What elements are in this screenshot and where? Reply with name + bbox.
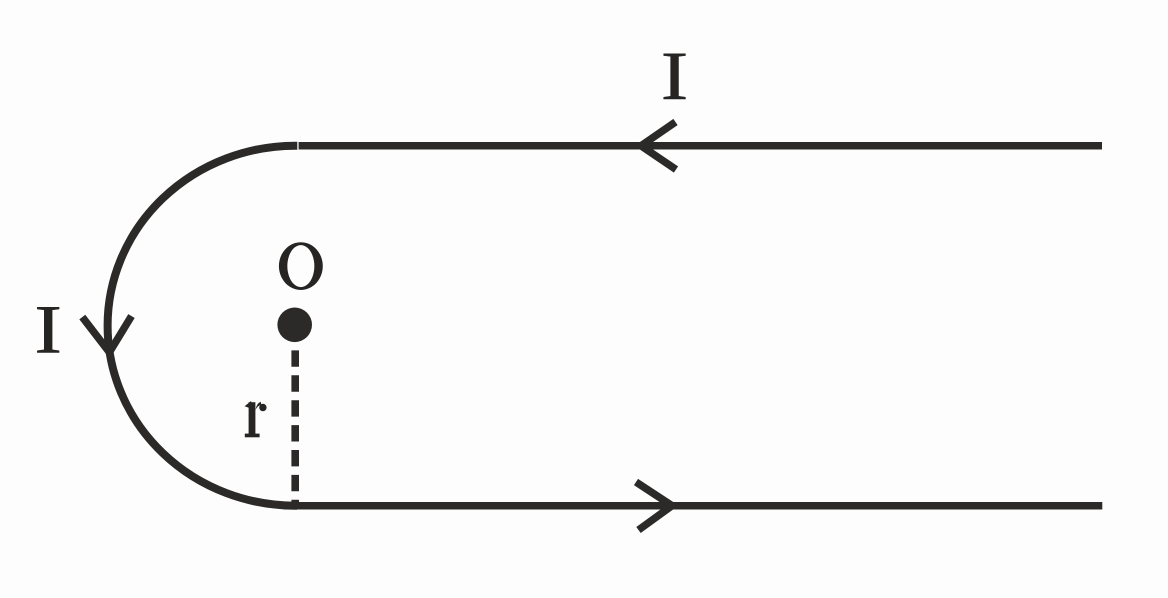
svg-text:I: I bbox=[661, 39, 689, 115]
svg-text:I: I bbox=[34, 292, 62, 368]
